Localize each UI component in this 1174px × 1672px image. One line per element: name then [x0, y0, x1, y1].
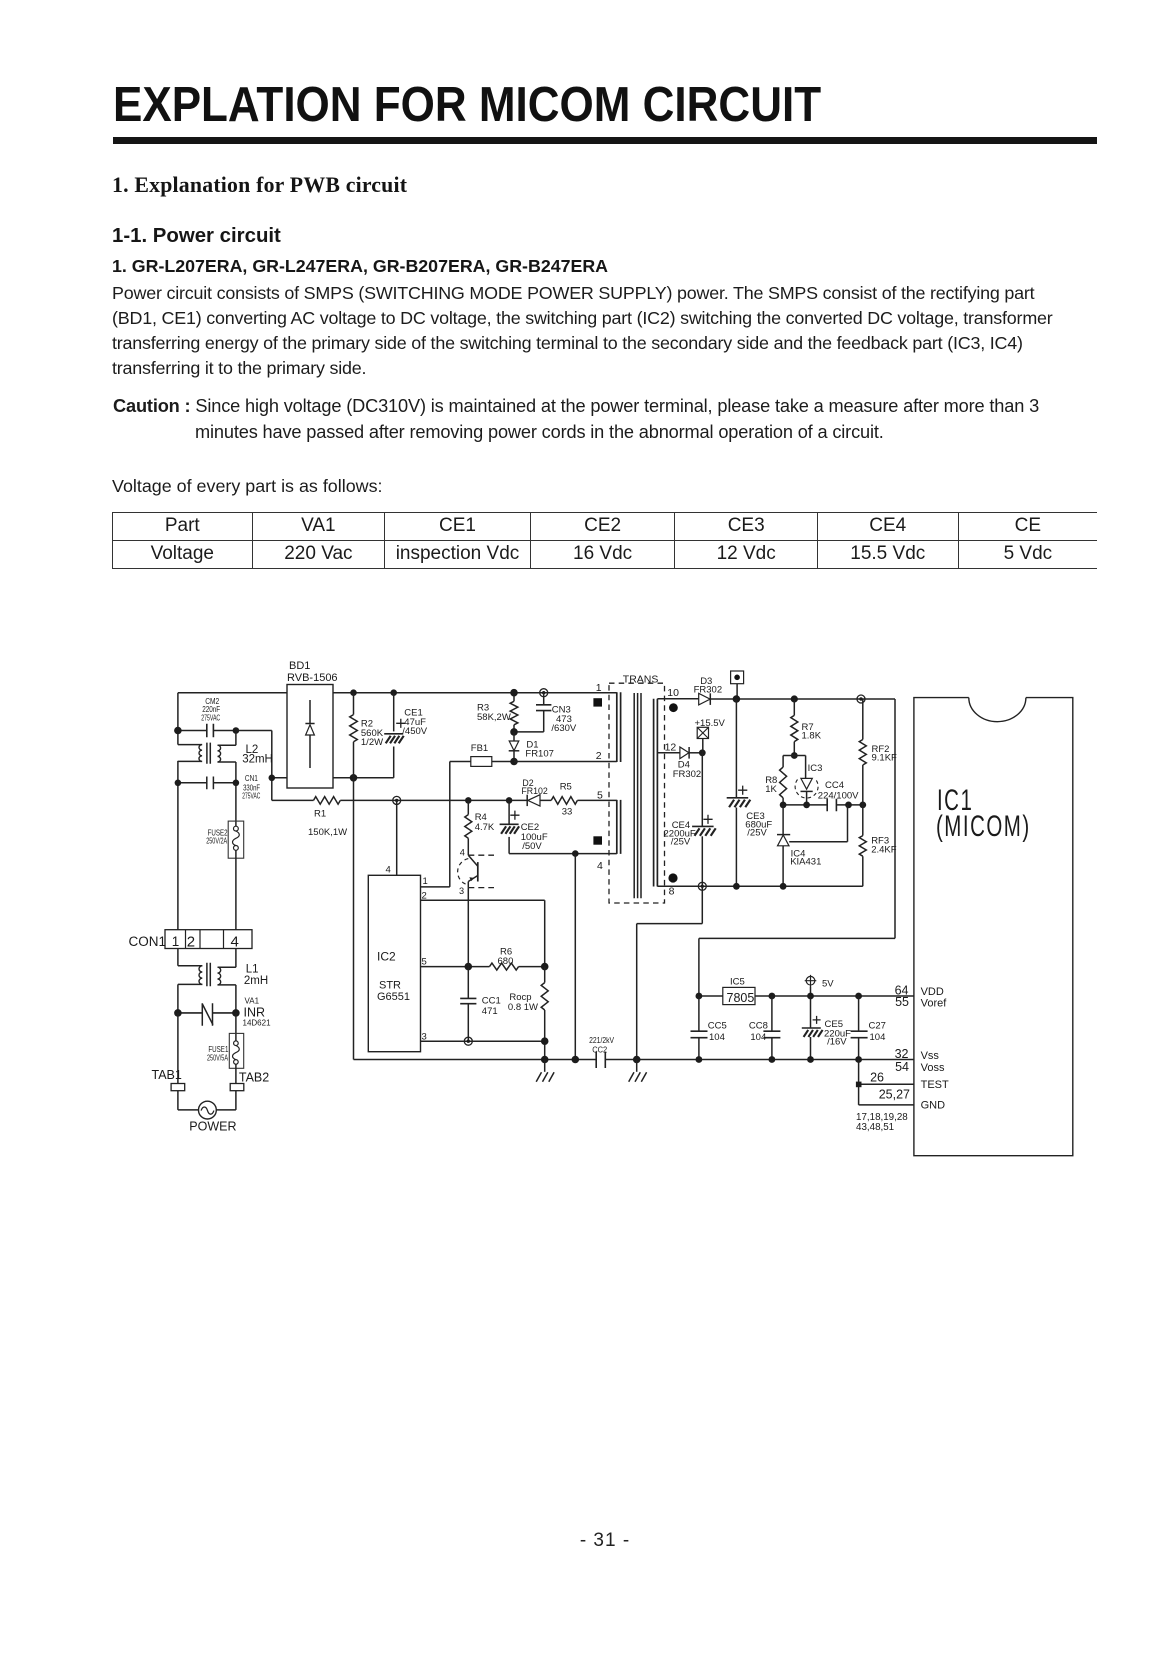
junction	[233, 727, 240, 734]
wire pin2	[514, 761, 617, 763]
junction	[855, 1056, 862, 1063]
svg-text:0.8 1W: 0.8 1W	[508, 1002, 538, 1013]
IC IC1 MICOM	[914, 698, 1073, 1156]
inductor L1	[178, 949, 268, 1013]
svg-text:4: 4	[460, 847, 465, 857]
capacitor CC2	[589, 1035, 614, 1068]
junction	[780, 802, 787, 809]
svg-text:TAB1: TAB1	[152, 1068, 182, 1082]
diode D3	[694, 676, 723, 705]
inductor L2	[178, 731, 273, 783]
svg-text:POWER: POWER	[189, 1120, 236, 1134]
phasing dot pin 4	[593, 836, 602, 844]
junction	[232, 1009, 240, 1017]
svg-text:250V/5A: 250V/5A	[207, 1052, 228, 1062]
capacitor CC4	[783, 780, 863, 811]
transformer secondary winding 10-8	[654, 699, 658, 887]
junction	[633, 1056, 641, 1064]
junction	[572, 1056, 580, 1064]
junction	[541, 1056, 549, 1064]
wire switching rail (R1 to pin5)	[272, 799, 617, 801]
svg-text:FR102: FR102	[521, 786, 548, 796]
svg-text:14D621: 14D621	[243, 1019, 272, 1028]
capacitor CE3	[727, 699, 773, 886]
svg-text:/25V: /25V	[671, 837, 691, 848]
junction	[807, 993, 814, 1000]
terminal TAB1	[152, 1068, 185, 1091]
svg-text:1: 1	[172, 934, 180, 949]
svg-text:CC8: CC8	[749, 1020, 768, 1031]
wire R7 bottom branch	[783, 756, 806, 779]
junction	[350, 774, 358, 782]
junction	[791, 752, 798, 759]
svg-text:32mH: 32mH	[242, 754, 273, 766]
junction	[855, 993, 862, 1000]
svg-text:25,27: 25,27	[879, 1088, 910, 1102]
junction	[233, 780, 240, 787]
capacitor CE1	[384, 693, 428, 778]
junction	[791, 695, 798, 702]
junction	[803, 802, 810, 809]
transformer core	[634, 693, 641, 898]
wire secondary gnd drop	[637, 886, 703, 1059]
junction	[856, 1082, 862, 1088]
terminal TAB2	[230, 1071, 269, 1091]
wire TEST / GND pins	[859, 1060, 914, 1105]
svg-text:C27: C27	[869, 1020, 886, 1031]
capacitor CE5	[802, 996, 851, 1060]
junction	[350, 689, 357, 696]
wire CM2 to BD1 input	[236, 731, 287, 801]
svg-text:2: 2	[422, 890, 427, 901]
junction	[699, 749, 706, 756]
phasing dot pin 1	[593, 698, 602, 706]
capacitor CM2	[178, 697, 236, 737]
resistor R6	[421, 946, 545, 970]
junction	[510, 728, 518, 736]
resistor R4	[465, 800, 495, 838]
junction	[845, 802, 852, 809]
svg-text:680: 680	[498, 956, 514, 967]
svg-text:54: 54	[895, 1060, 909, 1074]
svg-text:150K,1W: 150K,1W	[308, 827, 347, 838]
svg-text:26: 26	[870, 1070, 884, 1084]
wire secondary ground rail	[657, 885, 862, 887]
svg-text:R5: R5	[560, 781, 572, 792]
resistor R7	[791, 699, 822, 756]
net 5V	[805, 975, 835, 996]
varistor VA1 INR	[178, 996, 271, 1027]
junction	[174, 1009, 182, 1017]
capacitor C27	[851, 996, 886, 1060]
transformer TRANS dashed outline	[609, 683, 665, 903]
junction	[698, 882, 706, 890]
svg-text:9.1KF: 9.1KF	[872, 752, 898, 763]
resistor RF3	[859, 805, 896, 886]
capacitor CE2	[500, 800, 548, 853]
junction	[541, 1037, 549, 1045]
svg-text:1K: 1K	[765, 784, 777, 795]
wire IC2 pin2	[421, 900, 545, 966]
svg-text:IC2: IC2	[377, 950, 396, 964]
svg-text:R1: R1	[314, 809, 326, 820]
svg-text:471: 471	[482, 1006, 498, 1017]
wire AC top rail	[178, 692, 617, 694]
svg-text:1: 1	[423, 876, 428, 887]
svg-text:FB1: FB1	[471, 743, 488, 754]
resistor R8	[765, 767, 786, 805]
svg-text:STR: STR	[379, 980, 401, 992]
resistor R2	[350, 693, 384, 778]
svg-text:1: 1	[596, 682, 602, 694]
capacitor CC1	[460, 888, 501, 1042]
svg-text:IC3: IC3	[808, 763, 823, 774]
net +15.5V	[695, 718, 726, 753]
svg-text:4: 4	[231, 933, 239, 950]
junction	[506, 797, 513, 804]
svg-text:5: 5	[597, 789, 603, 801]
svg-text:IC5: IC5	[730, 977, 745, 988]
wire left AC rail	[177, 693, 179, 930]
svg-text:CON1: CON1	[129, 934, 167, 949]
source POWER	[178, 1091, 237, 1134]
svg-text:VDD: VDD	[921, 986, 944, 998]
wire BD1 DC- rail	[333, 777, 394, 779]
svg-text:8: 8	[669, 886, 675, 898]
svg-text:/50V: /50V	[522, 841, 542, 852]
svg-text:CC1: CC1	[482, 995, 501, 1006]
svg-text:+15.5V: +15.5V	[695, 718, 726, 729]
svg-text:43,48,51: 43,48,51	[856, 1122, 894, 1133]
svg-text:104: 104	[870, 1032, 886, 1043]
resistor Rocp	[508, 967, 548, 1060]
svg-text:4: 4	[597, 860, 603, 872]
diode D4	[657, 747, 702, 780]
junction	[859, 802, 866, 809]
junction	[541, 963, 549, 971]
junction	[696, 1056, 703, 1063]
fuse FUSE2	[206, 783, 244, 930]
junction	[175, 780, 182, 787]
svg-text:/630V: /630V	[551, 723, 576, 734]
junction	[465, 963, 473, 971]
svg-text:2.4KF: 2.4KF	[871, 844, 897, 855]
net tie symbol	[731, 671, 744, 699]
wire pin4 ground drop	[574, 854, 576, 1060]
svg-text:33: 33	[562, 807, 573, 818]
svg-text:5: 5	[422, 957, 427, 968]
resistor R5	[551, 781, 577, 817]
ferrite bead FB1	[450, 743, 514, 766]
capacitor CC5	[691, 996, 727, 1060]
wire pin4 to CE2	[509, 853, 617, 855]
svg-text:BD1: BD1	[289, 660, 310, 672]
junction	[510, 758, 518, 766]
svg-text:3: 3	[422, 1032, 427, 1043]
phasing dot pin 10	[669, 703, 678, 712]
wire primary return (R2 bottom to gnd rail)	[353, 778, 355, 1060]
svg-text:CC2: CC2	[592, 1044, 607, 1054]
junction	[540, 689, 548, 697]
ground	[629, 1060, 647, 1082]
wire TAB1 drop	[177, 1013, 179, 1084]
fuse FUSE1	[207, 1013, 244, 1084]
junction	[572, 850, 579, 857]
svg-text:/450V: /450V	[402, 726, 427, 737]
junction	[390, 689, 397, 696]
svg-text:4.7K: 4.7K	[475, 822, 495, 833]
junction	[269, 775, 276, 782]
capacitor CN3	[514, 693, 577, 735]
svg-text:G6551: G6551	[377, 991, 410, 1003]
transformer primary winding 1-2	[617, 692, 621, 762]
svg-text:VA1: VA1	[245, 996, 260, 1005]
svg-text:Vss: Vss	[921, 1050, 940, 1062]
svg-text:Voref: Voref	[921, 997, 948, 1009]
svg-text:10: 10	[667, 687, 679, 699]
svg-text:5V: 5V	[822, 978, 834, 989]
wire IC2 pin4	[396, 800, 398, 875]
svg-text:/25V: /25V	[747, 828, 767, 839]
junction	[174, 727, 182, 735]
svg-text:58K,2W: 58K,2W	[477, 712, 511, 723]
bridge rectifier BD1	[287, 660, 338, 788]
wire IC2 pin3	[421, 1040, 545, 1042]
svg-text:KIA431: KIA431	[790, 857, 821, 868]
svg-text:L1: L1	[246, 964, 259, 976]
junction	[769, 1056, 776, 1063]
svg-text:2mH: 2mH	[244, 975, 268, 987]
junction	[780, 883, 787, 890]
resistor R3	[477, 693, 518, 732]
junction	[733, 883, 740, 890]
junction	[733, 695, 741, 703]
IC IC2 STR G6551	[368, 875, 420, 1051]
junction	[857, 695, 865, 703]
junction	[393, 796, 401, 804]
diode D2	[521, 778, 548, 806]
svg-text:RVB-1506: RVB-1506	[287, 672, 338, 684]
svg-text:2: 2	[596, 750, 602, 762]
svg-text:104: 104	[709, 1032, 725, 1043]
svg-text:INR: INR	[244, 1005, 266, 1019]
wire FB1 to IC2 pin1	[421, 762, 450, 887]
svg-text:Voss: Voss	[921, 1062, 945, 1074]
wire feedback +12V to 7805	[699, 699, 895, 996]
svg-text:104: 104	[750, 1032, 766, 1043]
junction	[807, 1056, 814, 1063]
svg-text:7805: 7805	[727, 991, 755, 1005]
resistor R1	[308, 797, 347, 838]
svg-text:TEST: TEST	[921, 1079, 949, 1091]
transistor Q1 (in IC2)	[458, 838, 494, 896]
svg-text:FR107: FR107	[525, 749, 554, 760]
svg-text:GND: GND	[921, 1100, 946, 1112]
regulator IC5 7805	[723, 977, 755, 1005]
junction	[510, 689, 518, 697]
svg-text:3: 3	[459, 886, 464, 896]
svg-text:1.8K: 1.8K	[802, 730, 822, 741]
svg-text:(MICOM): (MICOM)	[936, 810, 1031, 843]
svg-text:224/100V: 224/100V	[818, 790, 859, 801]
svg-text:FR302: FR302	[694, 685, 723, 696]
svg-text:275VAC: 275VAC	[242, 791, 260, 801]
svg-text:FR302: FR302	[673, 769, 702, 780]
shunt regulator IC4 KIA431	[777, 805, 848, 886]
capacitor CE4	[664, 753, 716, 887]
wire 5V rail	[699, 995, 914, 997]
connector CON1	[129, 930, 253, 951]
capacitor CN1	[178, 773, 260, 800]
svg-text:CC5: CC5	[708, 1020, 727, 1031]
transformer primary winding 5-4	[617, 800, 621, 854]
junction	[465, 797, 472, 804]
diode D1	[509, 732, 554, 762]
wire secondary +12V rail	[657, 698, 895, 700]
resistor RF2	[859, 699, 897, 805]
svg-text:1/2W: 1/2W	[361, 737, 383, 748]
junction	[696, 993, 703, 1000]
junction	[464, 1037, 472, 1045]
svg-text:275VAC: 275VAC	[201, 713, 220, 722]
svg-text:/16V: /16V	[827, 1037, 847, 1048]
ground	[536, 1060, 554, 1082]
svg-text:250V/2A: 250V/2A	[206, 835, 227, 845]
svg-text:55: 55	[895, 995, 909, 1009]
svg-text:2: 2	[187, 933, 195, 950]
opto IC3	[795, 763, 822, 805]
wire main ground rail	[354, 1059, 914, 1061]
phasing dot pin 8	[668, 873, 677, 882]
capacitor CC8	[749, 996, 781, 1060]
svg-text:4: 4	[386, 865, 391, 876]
svg-text:TRANS: TRANS	[623, 673, 659, 685]
svg-text:TAB2: TAB2	[239, 1071, 269, 1085]
junction	[769, 993, 776, 1000]
svg-text:12: 12	[665, 742, 677, 754]
